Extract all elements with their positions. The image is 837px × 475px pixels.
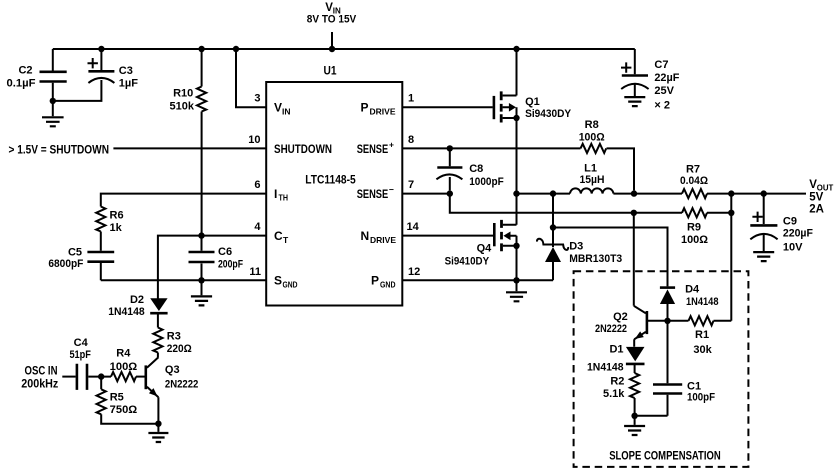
svg-text:D1: D1 <box>609 344 623 356</box>
ground under C2 <box>52 101 54 116</box>
svg-text:DRIVE: DRIVE <box>370 235 396 245</box>
ground under PGND <box>516 280 518 291</box>
wire shutdown to pin10 <box>113 147 266 149</box>
svg-text:R9: R9 <box>687 222 701 234</box>
slope compensation dashed box <box>574 271 749 467</box>
svg-text:Q1: Q1 <box>525 96 540 108</box>
svg-text:1k: 1k <box>110 222 123 234</box>
svg-text:T: T <box>283 235 289 245</box>
svg-text:1: 1 <box>408 93 414 105</box>
wire top VIN rail <box>53 48 635 50</box>
capacitor C7 <box>634 49 636 96</box>
junction dot C6/SGND <box>198 277 204 283</box>
svg-text:200pF: 200pF <box>218 259 243 271</box>
diode D1 1N4148 <box>626 347 645 362</box>
capacitor C2 <box>52 49 54 101</box>
junction dot R9 right <box>728 210 734 216</box>
junction dot SENSE- / Q2 collector drop <box>631 210 637 216</box>
svg-text:5.1k: 5.1k <box>603 388 625 400</box>
resistor R4 <box>111 372 136 381</box>
transistor Q3 2N2222 <box>145 365 148 389</box>
capacitor C8 <box>449 148 451 190</box>
svg-text:100pF: 100pF <box>687 391 715 403</box>
wire SENSE- drop <box>450 194 732 213</box>
resistor R3 <box>153 328 162 353</box>
svg-text:1N4148: 1N4148 <box>686 296 719 308</box>
svg-text:100Ω: 100Ω <box>110 361 138 373</box>
junction dot Q4 source/PGND <box>513 277 519 283</box>
svg-text:7: 7 <box>408 179 414 191</box>
svg-text:U1: U1 <box>324 66 338 78</box>
svg-text:GND: GND <box>283 280 298 290</box>
resistor R6 <box>96 207 105 232</box>
junction dot C3/rail <box>98 46 104 52</box>
svg-text:SHUTDOWN: SHUTDOWN <box>274 142 332 156</box>
svg-text:6: 6 <box>254 179 260 191</box>
junction dot D3 top <box>550 190 556 196</box>
ground under SGND <box>201 280 203 295</box>
svg-text:Q2: Q2 <box>613 311 628 323</box>
svg-text:N: N <box>361 229 370 243</box>
resistor R2 <box>630 373 639 398</box>
svg-text:8: 8 <box>408 134 414 146</box>
svg-text:R6: R6 <box>110 210 124 222</box>
svg-text:V: V <box>274 101 282 115</box>
junction dot pin3 drop/rail <box>233 46 239 52</box>
svg-text:D3: D3 <box>569 241 583 253</box>
svg-text:R3: R3 <box>167 331 181 343</box>
resistor R8 <box>581 144 607 153</box>
svg-text:C: C <box>274 229 283 243</box>
transistor Q2 2N2222 <box>633 213 635 306</box>
wire pin6 ITH <box>101 194 266 207</box>
svg-text:8V TO 15V: 8V TO 15V <box>307 14 357 26</box>
svg-text:C7: C7 <box>654 59 668 71</box>
svg-text:OSC IN: OSC IN <box>25 363 58 377</box>
junction dot R2/C1 gnd <box>631 413 637 419</box>
svg-text:SENSE: SENSE <box>357 142 389 156</box>
wire VOUT down to R1 <box>730 194 732 321</box>
ground under C9 <box>753 252 774 261</box>
svg-text:D2: D2 <box>130 294 144 306</box>
diode D4 1N4148 <box>660 286 675 289</box>
svg-text:Q3: Q3 <box>165 364 180 376</box>
IC U1 LTC1148-5 chip body <box>266 82 402 306</box>
wire pin 7 SENSE- <box>402 193 450 195</box>
svg-text:C8: C8 <box>469 163 483 175</box>
ground under C7 <box>624 97 645 106</box>
svg-text:Si9410DY: Si9410DY <box>445 256 490 268</box>
wire pin 12 PGND row <box>402 279 553 281</box>
svg-text:LTC1148-5: LTC1148-5 <box>305 174 356 186</box>
svg-text:12: 12 <box>408 266 420 278</box>
capacitor C1 <box>667 321 669 416</box>
wire R7 to VOUT <box>707 193 806 195</box>
svg-text:R7: R7 <box>686 164 700 176</box>
svg-text:11: 11 <box>249 266 261 278</box>
junction dot R10/rail <box>198 46 204 52</box>
svg-text:1000pF: 1000pF <box>469 176 504 188</box>
svg-text:10: 10 <box>248 134 260 146</box>
capacitor C5 <box>100 232 102 281</box>
svg-text:200kHz: 200kHz <box>21 376 58 390</box>
junction dot R10-C6/CT <box>198 232 204 238</box>
svg-text:25V: 25V <box>654 85 674 97</box>
transistor Q4 Si9410DY <box>402 235 493 237</box>
inductor L1 <box>570 188 613 193</box>
junction dot C2 bottom <box>50 98 56 104</box>
junction dot Q1/rail <box>513 46 519 52</box>
wire switch node tap to D4 <box>553 228 668 287</box>
junction dot C8/SENSE- <box>447 190 453 196</box>
junction dot C8/SENSE+ <box>447 145 453 151</box>
svg-text:R8: R8 <box>585 119 599 131</box>
capacitor C3 <box>100 49 102 84</box>
svg-text:P: P <box>361 101 369 115</box>
wire rail to pin 3 <box>236 49 266 107</box>
junction dot Q3 emitter/gnd <box>155 421 161 427</box>
capacitor C4 <box>62 376 75 378</box>
svg-text:R4: R4 <box>116 348 131 360</box>
resistor R5 <box>100 377 102 390</box>
svg-text:R5: R5 <box>110 392 124 404</box>
svg-text:3: 3 <box>254 93 260 105</box>
junction dot VIN stub/rail <box>329 46 335 52</box>
svg-text:14: 14 <box>407 221 420 233</box>
capacitor C6 <box>201 236 203 281</box>
capacitor C9 <box>763 194 765 251</box>
svg-text:MBR130T3: MBR130T3 <box>569 253 622 265</box>
svg-text:C2: C2 <box>18 65 32 77</box>
svg-text:2N2222: 2N2222 <box>595 323 627 335</box>
svg-text:S: S <box>274 274 282 288</box>
wire pin 8 SENSE+ row <box>402 147 580 149</box>
svg-text:Si9430DY: Si9430DY <box>525 108 572 120</box>
junction dot VOUT/R9 vertical <box>728 190 734 196</box>
wire R2 to C1 bottom <box>635 415 668 417</box>
svg-text:1N4148: 1N4148 <box>587 362 624 374</box>
svg-text:10V: 10V <box>783 242 803 254</box>
svg-text:4: 4 <box>254 221 261 233</box>
svg-text:× 2: × 2 <box>654 100 670 112</box>
svg-text:15µH: 15µH <box>580 174 605 186</box>
svg-text:−: − <box>389 184 394 194</box>
svg-text:22µF: 22µF <box>654 72 679 84</box>
svg-text:R10: R10 <box>173 87 193 99</box>
svg-text:0.1µF: 0.1µF <box>7 78 36 90</box>
svg-text:TH: TH <box>279 193 289 203</box>
wire R8 to L1/R7 node <box>607 148 635 190</box>
svg-text:C5: C5 <box>68 246 82 258</box>
ground slope comp <box>634 416 636 425</box>
diode D3 MBR130T3 <box>552 194 554 281</box>
junction dot switch node / Q1 drain <box>513 190 519 196</box>
svg-text:1N4148: 1N4148 <box>108 306 145 318</box>
svg-text:C6: C6 <box>218 246 232 258</box>
svg-text:750Ω: 750Ω <box>110 404 138 416</box>
svg-text:6800pF: 6800pF <box>48 258 83 270</box>
svg-text:L1: L1 <box>584 163 597 175</box>
diode D2 1N4148 <box>150 298 167 311</box>
svg-text:100Ω: 100Ω <box>579 132 605 144</box>
svg-text:Q4: Q4 <box>477 243 493 255</box>
resistor R7 <box>682 189 707 198</box>
resistor R1 <box>689 316 714 325</box>
svg-text:R2: R2 <box>610 376 624 388</box>
wire switch node to L1 <box>517 193 571 195</box>
resistor R10 <box>201 49 203 236</box>
svg-text:2N2222: 2N2222 <box>165 379 199 391</box>
svg-text:SENSE: SENSE <box>357 187 389 201</box>
svg-text:IN: IN <box>282 107 291 117</box>
node VIN stub <box>331 32 333 49</box>
svg-text:2A: 2A <box>809 204 824 216</box>
svg-text:P: P <box>371 274 379 288</box>
svg-text:510k: 510k <box>170 100 195 112</box>
svg-text:0.04Ω: 0.04Ω <box>680 175 708 187</box>
svg-text:SLOPE COMPENSATION: SLOPE COMPENSATION <box>609 451 721 463</box>
svg-text:I: I <box>274 187 277 201</box>
svg-text:C4: C4 <box>74 337 89 349</box>
svg-text:51pF: 51pF <box>69 349 91 361</box>
svg-text:+: + <box>389 139 394 149</box>
transistor Q1 Si9430DY <box>493 96 496 119</box>
svg-text:R1: R1 <box>695 329 709 341</box>
svg-text:> 1.5V = SHUTDOWN: > 1.5V = SHUTDOWN <box>9 142 110 156</box>
svg-text:GND: GND <box>380 280 396 290</box>
junction dot C9 <box>761 190 767 196</box>
svg-text:100Ω: 100Ω <box>681 234 708 246</box>
svg-text:C9: C9 <box>783 216 797 228</box>
wire L1 to R7 <box>613 193 682 195</box>
svg-text:220Ω: 220Ω <box>167 343 192 355</box>
wire pin 1 to Q1 gate <box>402 106 492 108</box>
wire pin4 CT row <box>158 236 266 299</box>
svg-text:DRIVE: DRIVE <box>370 107 396 117</box>
wire SGND row <box>101 279 266 281</box>
svg-text:5V: 5V <box>809 191 823 203</box>
resistor R9 (drawn over SENSE- row) <box>682 208 707 217</box>
svg-text:30k: 30k <box>693 344 712 356</box>
svg-text:1µF: 1µF <box>119 77 138 89</box>
ground under Q3 <box>157 424 159 432</box>
svg-text:C3: C3 <box>119 65 133 77</box>
svg-text:220µF: 220µF <box>783 227 813 239</box>
svg-text:D4: D4 <box>685 284 700 296</box>
wire Q2 base node row / R1 <box>648 320 689 322</box>
junction dot R5 tap <box>98 373 104 379</box>
junction dot R8 drop / L1 line <box>631 190 637 196</box>
wire C2/C3 bottom <box>53 84 102 101</box>
